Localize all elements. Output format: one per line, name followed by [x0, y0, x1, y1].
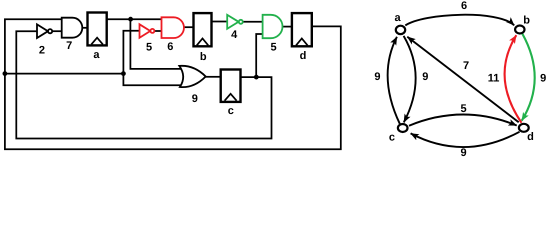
svg-text:9: 9 — [540, 72, 546, 84]
svg-text:d: d — [300, 50, 307, 62]
svg-text:9: 9 — [192, 93, 198, 105]
svg-text:c: c — [389, 132, 395, 144]
svg-text:7: 7 — [66, 40, 72, 52]
svg-text:b: b — [200, 51, 207, 63]
svg-text:4: 4 — [231, 29, 238, 41]
svg-text:a: a — [93, 49, 100, 61]
svg-text:d: d — [527, 131, 534, 143]
svg-text:6: 6 — [461, 0, 467, 12]
svg-text:5: 5 — [146, 41, 152, 53]
svg-text:9: 9 — [422, 71, 428, 83]
svg-text:11: 11 — [488, 72, 500, 84]
svg-text:2: 2 — [39, 45, 45, 57]
svg-text:9: 9 — [461, 147, 467, 159]
svg-text:7: 7 — [463, 60, 469, 72]
svg-text:5: 5 — [271, 41, 277, 53]
svg-text:c: c — [228, 105, 234, 117]
svg-text:9: 9 — [374, 71, 380, 83]
svg-text:5: 5 — [460, 103, 466, 115]
svg-text:6: 6 — [167, 41, 173, 53]
svg-text:a: a — [395, 12, 402, 24]
svg-text:b: b — [523, 14, 530, 26]
